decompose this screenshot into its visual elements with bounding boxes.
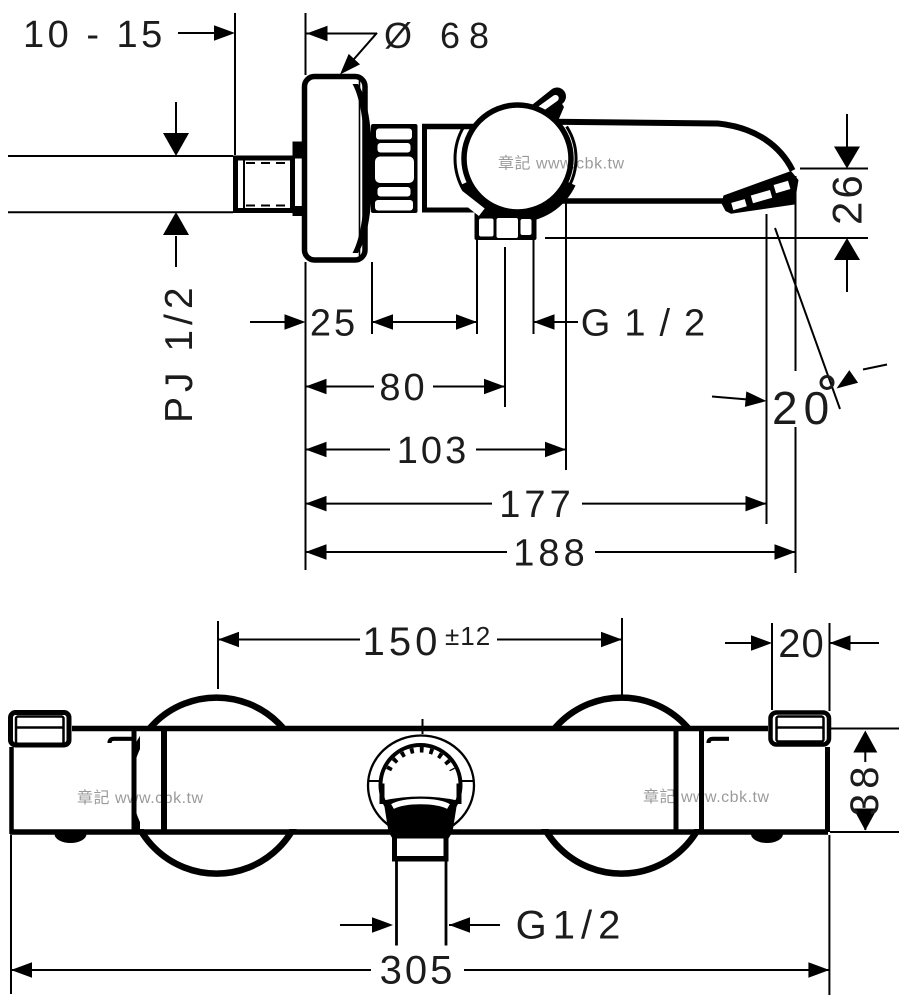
svg-text:±12: ±12 [445,621,491,651]
svg-text:188: 188 [513,533,588,575]
svg-text:10 - 15: 10 - 15 [23,14,166,56]
svg-text:20: 20 [778,622,825,666]
svg-text:章記 www.cbk.tw: 章記 www.cbk.tw [498,155,625,173]
svg-text:305: 305 [380,949,456,993]
svg-text:G1/2: G1/2 [581,303,719,345]
svg-text:150: 150 [363,620,442,664]
svg-text:章記 www.cbk.tw: 章記 www.cbk.tw [77,789,204,807]
svg-text:G1/2: G1/2 [516,904,627,948]
svg-text:177: 177 [499,484,574,526]
svg-text:80: 80 [379,367,427,409]
svg-text:PJ 1/2: PJ 1/2 [158,282,201,423]
svg-text:38: 38 [843,762,887,817]
svg-text:103: 103 [397,430,469,472]
svg-text:Ø 68: Ø 68 [384,15,498,56]
svg-text:章記 www.cbk.tw: 章記 www.cbk.tw [643,788,770,806]
svg-text:25: 25 [310,303,358,345]
svg-text:26: 26 [824,172,871,225]
